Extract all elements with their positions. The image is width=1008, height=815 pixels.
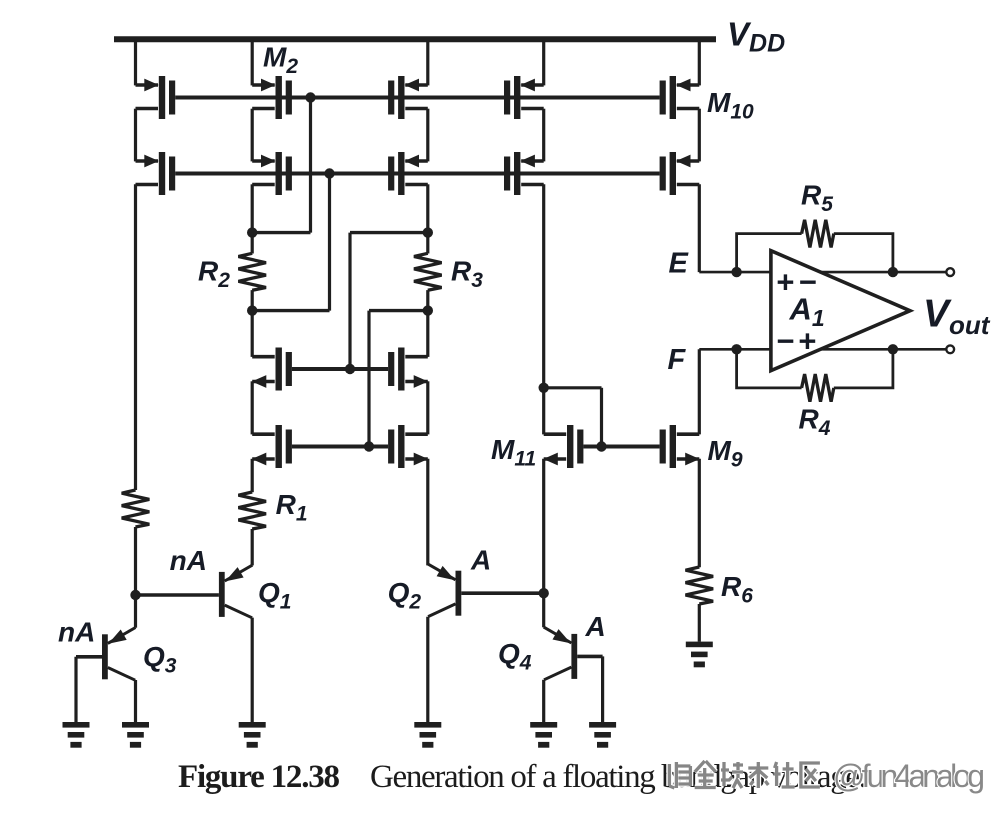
svg-text:−: − xyxy=(776,323,794,358)
node row3 gate junction xyxy=(345,364,355,374)
wire Q4 base lead xyxy=(577,655,602,659)
wire R2 top lead xyxy=(251,233,254,254)
pmos row3 left xyxy=(252,348,292,391)
wire Q3 base lead xyxy=(76,655,102,659)
pmos row1 col3 xyxy=(388,76,428,119)
wire Q3 collector to ground xyxy=(134,680,137,722)
wire Q1 collector to ground xyxy=(251,618,254,722)
wire col2 drain to R2 top xyxy=(251,184,254,232)
node R2 top xyxy=(247,227,257,237)
wire VDD drop col4 xyxy=(542,40,545,85)
wire R3 bottom to row3-right source xyxy=(426,311,429,357)
svg-text:F: F xyxy=(668,344,687,376)
ground Q1 collector xyxy=(239,722,266,748)
wire op-amp output bottom xyxy=(821,348,947,351)
wire M9 source to R6 xyxy=(698,459,701,567)
node output bottom junction xyxy=(888,344,898,354)
wire Q2 base to M11 column xyxy=(461,591,543,595)
node row2 gate junction xyxy=(324,168,334,178)
pmos row4 right xyxy=(388,425,428,468)
wire Q3 base to ground xyxy=(74,657,77,722)
op-amp A1 xyxy=(771,251,910,371)
ground Q3 base xyxy=(63,722,90,748)
pmos M2 (row1 col2) xyxy=(252,76,292,119)
node row4 gate junction xyxy=(364,441,374,451)
wire col5 drain down to node E xyxy=(698,184,701,272)
transistor Q4 xyxy=(544,627,578,680)
svg-text:E: E xyxy=(669,248,690,280)
wire R4 feedback right xyxy=(834,349,893,388)
wire row2 common gate line xyxy=(175,172,659,176)
resistor R3 xyxy=(414,253,442,290)
wire col3 drain to R3 top xyxy=(426,184,429,232)
ground Q4 base xyxy=(589,722,616,748)
wire row3-right to row4-right link xyxy=(426,381,429,434)
resistor R4 xyxy=(802,374,834,402)
wire node F down to M9 drain xyxy=(698,349,701,434)
wire junction down to Q4 emitter xyxy=(542,593,545,627)
wire row4-right down to Q2 emitter xyxy=(426,459,429,566)
wire R4 feedback left xyxy=(737,349,802,388)
wire VDD drop col2 xyxy=(251,40,254,85)
wire R3 bottom horizontal xyxy=(369,309,428,312)
wire R6 to ground xyxy=(698,604,701,642)
wire Q1 base xyxy=(136,593,219,597)
wire branch down to gate line xyxy=(600,388,603,447)
wire left branch to Q1 base node xyxy=(134,527,137,595)
node row1 gate junction xyxy=(305,92,315,102)
svg-text:nA: nA xyxy=(170,545,207,576)
resistor R5 xyxy=(802,220,834,248)
wire R3 top horizontal xyxy=(350,231,428,234)
wire cascode link col4 xyxy=(542,109,545,162)
wire col4 drain down to M11 branch node xyxy=(542,184,545,387)
wire R5 feedback left xyxy=(737,234,802,273)
pmos row2 col1 (cascode) xyxy=(136,152,176,195)
wire M11 source down to Q2 base node xyxy=(542,459,545,593)
wire op-amp output top xyxy=(821,271,947,274)
pmos row2 col4 (cascode) xyxy=(504,152,544,195)
nmos M11 xyxy=(543,425,583,468)
node F feedback junction xyxy=(731,344,741,354)
wire R2 bottom horizontal xyxy=(252,309,329,312)
svg-text:@fun4analog: @fun4analog xyxy=(833,758,985,794)
wire cascode link col2 xyxy=(251,109,254,162)
wire col1 drain down to left resistor xyxy=(134,184,137,490)
wire branch node to M11 drain xyxy=(542,388,545,435)
node Q1 base junction xyxy=(130,590,140,600)
wire cascode link col5 xyxy=(698,109,701,162)
pmos row4 left xyxy=(252,425,292,468)
wire R3 bottom lead xyxy=(426,290,429,311)
node Q2 base / Q4 emitter junction xyxy=(539,588,549,598)
terminal output top xyxy=(946,268,954,276)
wire row3 gate line xyxy=(292,367,388,371)
svg-text:Figure 12.38: Figure 12.38 xyxy=(178,759,340,795)
node M11 drain/gate branch xyxy=(539,383,549,393)
wire row3-left to row4-left link xyxy=(251,381,254,434)
wire R3 top to row3 gate xyxy=(348,233,351,369)
transistor Q3 xyxy=(102,628,136,681)
wire node E to op-amp input xyxy=(699,271,771,274)
pmos row1 col4 xyxy=(504,76,544,119)
node E feedback junction xyxy=(731,267,741,277)
wire VDD rail xyxy=(114,36,716,42)
wire row4-left to R1 top xyxy=(251,459,254,492)
ground R6 xyxy=(686,642,713,668)
pmos row3 right xyxy=(388,348,428,391)
wire VDD drop col3 xyxy=(426,40,429,85)
wire R3 bottom to row4 gate xyxy=(367,311,370,447)
wire row2 gate to R2 bottom xyxy=(328,174,331,311)
wire R5 feedback right xyxy=(834,234,893,273)
svg-text:nA: nA xyxy=(58,617,95,648)
pmos row2 col5 (cascode) xyxy=(660,152,700,195)
node output top junction xyxy=(888,267,898,277)
ground Q3 collector xyxy=(122,722,149,748)
wire M11-M9 gate line xyxy=(583,445,659,449)
resistor R2 xyxy=(238,253,266,290)
wire row1 common gate line xyxy=(175,96,659,100)
node R3 top xyxy=(423,227,433,237)
wire R2 top horizontal xyxy=(252,231,310,234)
wire branch to M11-M9 gate xyxy=(544,386,602,389)
resistor R6 xyxy=(686,567,714,604)
pmos M10 (row1 col5) xyxy=(660,76,700,119)
wire R2 bottom to row3-left source xyxy=(251,311,254,357)
wire row1 gate to R2 top xyxy=(309,98,312,233)
transistor Q1 xyxy=(219,565,253,618)
svg-text:A: A xyxy=(585,611,606,642)
node M11-M9 gate junction xyxy=(596,441,606,451)
ground Q4 collector xyxy=(530,722,557,748)
wire Q4 base to ground xyxy=(601,656,604,722)
nmos M9 xyxy=(660,425,700,468)
node R3 bottom xyxy=(423,305,433,315)
wire VDD drop col1 xyxy=(134,40,137,85)
ground Q2 collector xyxy=(414,722,441,748)
wire cascode link col1 xyxy=(134,109,137,162)
wire R2 bottom lead xyxy=(251,290,254,311)
resistor left branch (unlabeled) xyxy=(122,490,150,527)
pmos row2 col3 (cascode) xyxy=(388,152,428,195)
pmos row2 col2 (cascode) xyxy=(252,152,292,195)
wire cascode link col3 xyxy=(426,109,429,162)
wire R3 top lead xyxy=(426,233,429,254)
wire VDD drop col5 xyxy=(698,40,701,85)
pmos row1 col1 xyxy=(136,76,176,119)
wire Q1 base node down to Q3 emitter xyxy=(134,595,137,628)
svg-text:A: A xyxy=(470,544,491,575)
wire row4 gate line xyxy=(292,445,388,449)
terminal output bottom xyxy=(946,345,954,353)
wire R1 to Q1 emitter xyxy=(251,529,254,565)
watermark CJK fake glyphs xyxy=(669,761,820,788)
transistor Q2 xyxy=(428,564,462,617)
wire Q4 collector to ground xyxy=(542,680,545,722)
wire node F to op-amp input xyxy=(699,348,771,351)
node R2 bottom xyxy=(247,305,257,315)
resistor R1 xyxy=(238,492,266,529)
wire Q2 collector to ground xyxy=(426,617,429,722)
